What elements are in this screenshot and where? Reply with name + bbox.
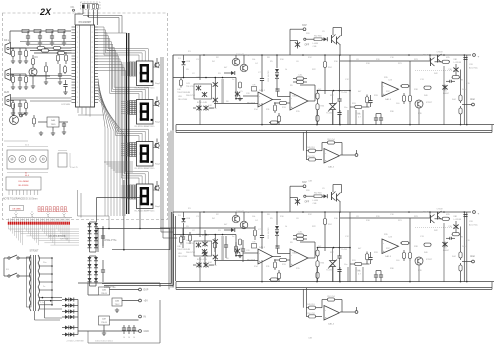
svg-text:+: + xyxy=(478,212,480,216)
svg-text:2: 2 xyxy=(92,72,93,74)
svg-text:-: - xyxy=(325,152,326,155)
svg-text:1: 1 xyxy=(77,32,78,34)
svg-text:2B0.975BU: 2B0.975BU xyxy=(178,256,188,258)
svg-text:2: 2 xyxy=(92,37,93,39)
svg-text:STR26T: STR26T xyxy=(30,250,39,253)
svg-text:d5: d5 xyxy=(15,212,17,214)
svg-text:10k: 10k xyxy=(252,216,255,218)
svg-text:DK 5N85: DK 5N85 xyxy=(12,209,21,211)
svg-text:L-U2F4B: L-U2F4B xyxy=(454,62,462,64)
svg-text:EXP: EXP xyxy=(144,289,149,292)
svg-text:KC113: KC113 xyxy=(202,235,209,237)
svg-text:1: 1 xyxy=(77,52,78,54)
svg-text:RB1: RB1 xyxy=(454,216,458,218)
svg-text:BAP: BAP xyxy=(302,181,307,184)
svg-text:10: 10 xyxy=(133,337,135,339)
svg-text:T2 4047: T2 4047 xyxy=(236,211,244,213)
svg-text:2: 2 xyxy=(92,57,93,59)
svg-text:R52 C54: R52 C54 xyxy=(327,139,334,141)
svg-text:2: 2 xyxy=(92,77,93,79)
svg-text:78L05: 78L05 xyxy=(101,293,108,295)
svg-text:ACC750u: ACC750u xyxy=(469,224,478,227)
svg-text:-: - xyxy=(259,253,260,256)
svg-text:d5: d5 xyxy=(47,212,49,214)
svg-text:L-U2F4B: L-U2F4B xyxy=(454,219,462,221)
svg-text:DA1.3: DA1.3 xyxy=(385,255,392,258)
svg-text:+: + xyxy=(478,55,480,59)
svg-text:CKB: CKB xyxy=(186,61,191,63)
svg-text:DC: DC xyxy=(35,56,39,59)
svg-text:MY ATX-BTX8B: MY ATX-BTX8B xyxy=(49,235,66,238)
svg-text:IN: IN xyxy=(144,316,147,319)
svg-text:R62 R63: R62 R63 xyxy=(314,193,321,195)
svg-text:1: 1 xyxy=(77,27,78,29)
svg-text:1: 1 xyxy=(77,82,78,84)
svg-text:RL-F2516 BBHFYD15: RL-F2516 BBHFYD15 xyxy=(135,211,156,213)
svg-text:CT648: CT648 xyxy=(436,208,443,210)
svg-text:L-H80: L-H80 xyxy=(313,200,319,202)
svg-text:CKB: CKB xyxy=(186,218,191,220)
svg-text:B7N L-F4B: B7N L-F4B xyxy=(197,259,208,261)
svg-text:AUX: AUX xyxy=(4,91,9,94)
svg-text:RL-F2016: RL-F2016 xyxy=(19,185,30,187)
svg-text:TDL975u: TDL975u xyxy=(186,86,194,88)
svg-text:+5V: +5V xyxy=(144,300,149,303)
svg-text:GND: GND xyxy=(144,330,150,333)
svg-text:R50 C52: R50 C52 xyxy=(307,313,314,315)
svg-text:1k: 1k xyxy=(285,69,287,71)
svg-text:BAP: BAP xyxy=(302,24,307,27)
svg-text:DA1.4: DA1.4 xyxy=(328,323,335,326)
svg-text:DIL-20SM: DIL-20SM xyxy=(19,181,29,183)
svg-text:OC.: OC. xyxy=(71,6,76,9)
svg-text:R49 R51: R49 R51 xyxy=(307,147,314,149)
svg-text:2T64B: 2T64B xyxy=(423,55,430,57)
svg-text:RL-F2516 BBHFYD15: RL-F2516 BBHFYD15 xyxy=(135,126,156,128)
svg-text:R50 C52: R50 C52 xyxy=(307,156,314,158)
svg-text:1: 1 xyxy=(77,67,78,69)
svg-text:-: - xyxy=(325,309,326,312)
svg-text:1: 1 xyxy=(77,87,78,89)
svg-text:WIDE-P76s: WIDE-P76s xyxy=(104,239,117,242)
svg-text:1: 1 xyxy=(77,97,78,99)
svg-text:100.0 100.0 100.0: 100.0 100.0 100.0 xyxy=(95,341,113,343)
svg-text:RL-F2516 BBHFYD15: RL-F2516 BBHFYD15 xyxy=(135,168,156,170)
svg-text:T2 4047: T2 4047 xyxy=(236,54,244,56)
svg-text:1: 1 xyxy=(77,92,78,94)
svg-text:DA1.1: DA1.1 xyxy=(259,246,266,249)
svg-text:1: 1 xyxy=(77,77,78,79)
svg-text:2: 2 xyxy=(92,67,93,69)
svg-text:L-H80: L-H80 xyxy=(313,43,319,45)
svg-text:TL434: TL434 xyxy=(341,92,348,94)
svg-text:OFF: OFF xyxy=(305,202,310,204)
svg-text:10k: 10k xyxy=(252,59,255,61)
svg-text:C0B: C0B xyxy=(313,203,318,205)
svg-text:R52 C54: R52 C54 xyxy=(327,296,334,298)
svg-text:2: 2 xyxy=(92,27,93,29)
svg-text:TL431: TL431 xyxy=(326,113,333,115)
svg-text:1n: 1n xyxy=(232,236,234,238)
svg-text:10n: 10n xyxy=(344,107,347,109)
svg-text:2B0.975BU: 2B0.975BU xyxy=(178,99,188,101)
svg-text:5B0.975u: 5B0.975u xyxy=(208,108,217,110)
svg-text:ACC750u: ACC750u xyxy=(469,67,478,70)
svg-text:TL434: TL434 xyxy=(341,249,348,251)
svg-text:2T64B: 2T64B xyxy=(423,212,430,214)
svg-text:KT817: KT817 xyxy=(426,102,433,104)
svg-text:R62 R63: R62 R63 xyxy=(314,36,321,38)
svg-text:2X: 2X xyxy=(39,7,52,17)
svg-text:1: 1 xyxy=(77,42,78,44)
svg-text:D16 L-H740: D16 L-H740 xyxy=(268,70,270,82)
svg-text:KT817: KT817 xyxy=(426,259,433,261)
svg-text:2: 2 xyxy=(92,82,93,84)
svg-text:B7N L-F4B: B7N L-F4B xyxy=(197,102,208,104)
svg-text:OCP-BW: OCP-BW xyxy=(61,104,71,106)
svg-text:2: 2 xyxy=(92,32,93,34)
svg-text:2: 2 xyxy=(92,97,93,99)
svg-text:1k: 1k xyxy=(285,226,287,228)
svg-text:-: - xyxy=(383,86,384,89)
svg-text:1n: 1n xyxy=(232,79,234,81)
svg-text:-: - xyxy=(383,243,384,246)
svg-text:10n: 10n xyxy=(344,264,347,266)
svg-text:Uout: Uout xyxy=(470,98,475,101)
svg-text:2: 2 xyxy=(92,87,93,89)
svg-text:TDL975u: TDL975u xyxy=(186,243,194,245)
svg-text:R49 R51: R49 R51 xyxy=(307,304,314,306)
svg-text:Uout: Uout xyxy=(470,255,475,258)
svg-text:1: 1 xyxy=(77,102,78,104)
svg-text:2: 2 xyxy=(92,102,93,104)
svg-text:d5: d5 xyxy=(63,212,65,214)
svg-text:T9L2: T9L2 xyxy=(115,304,121,306)
svg-text:TL431: TL431 xyxy=(326,270,333,272)
svg-text:OFF: OFF xyxy=(305,45,310,47)
svg-text:C4B: C4B xyxy=(186,249,191,251)
svg-text:2: 2 xyxy=(92,47,93,49)
svg-text:79L05: 79L05 xyxy=(101,322,108,324)
svg-text:2: 2 xyxy=(92,92,93,94)
svg-text:DA1.2: DA1.2 xyxy=(293,95,300,98)
svg-text:DA1.4: DA1.4 xyxy=(328,166,335,169)
svg-text:2: 2 xyxy=(92,62,93,64)
svg-text:1: 1 xyxy=(77,62,78,64)
svg-text:RL-F2516 BBHFYD15: RL-F2516 BBHFYD15 xyxy=(135,88,156,90)
svg-text:C4B: C4B xyxy=(186,92,191,94)
svg-text:CT648: CT648 xyxy=(436,51,443,53)
svg-text:10: 10 xyxy=(128,337,130,339)
svg-text:NOTE TOLERANCES D 3.0 5mm: NOTE TOLERANCES D 3.0 5mm xyxy=(3,198,37,201)
svg-text:2.7v: 2.7v xyxy=(40,302,44,304)
svg-text:2B0.975U: 2B0.975U xyxy=(186,95,195,97)
svg-text:1: 1 xyxy=(77,72,78,74)
svg-text:1: 1 xyxy=(77,47,78,49)
svg-text:+5Y05U +5YBT36V: +5Y05U +5YBT36V xyxy=(66,341,84,343)
svg-text:2B0.975U: 2B0.975U xyxy=(186,252,195,254)
svg-text:Ch.L: Ch.L xyxy=(4,39,10,42)
svg-text:-: - xyxy=(259,96,260,99)
svg-text:PIC16F887: PIC16F887 xyxy=(79,21,92,24)
svg-text:10: 10 xyxy=(123,337,125,339)
svg-text:1: 1 xyxy=(77,57,78,59)
svg-text:RB1: RB1 xyxy=(454,59,458,61)
svg-text:D16 L-H740: D16 L-H740 xyxy=(268,227,270,239)
svg-text:DA1.2: DA1.2 xyxy=(293,252,300,255)
svg-text:C0B: C0B xyxy=(313,46,318,48)
svg-text:7805: 7805 xyxy=(51,124,57,126)
svg-text:1: 1 xyxy=(77,37,78,39)
svg-text:DA1.1: DA1.1 xyxy=(259,89,266,92)
svg-text:2: 2 xyxy=(92,42,93,44)
svg-text:5B0.975u: 5B0.975u xyxy=(208,265,217,267)
svg-text:5.5x0.75: 5.5x0.75 xyxy=(70,167,79,169)
svg-text:d5: d5 xyxy=(31,212,33,214)
svg-text:DA1.3: DA1.3 xyxy=(385,98,392,101)
svg-text:2: 2 xyxy=(92,52,93,54)
svg-text:Y-HTS6B: Y-HTS6B xyxy=(60,239,69,241)
